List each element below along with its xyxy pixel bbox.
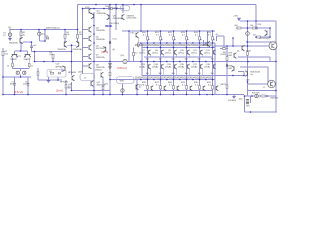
- svg-text:(2SA): (2SA): [178, 65, 184, 68]
- svg-text:R44 10R: R44 10R: [252, 92, 260, 94]
- svg-text:470R: 470R: [85, 7, 90, 9]
- svg-text:R (s): R (s): [113, 39, 117, 41]
- svg-text:(100R): (100R): [220, 54, 226, 56]
- svg-text:1k: 1k: [84, 78, 86, 80]
- svg-text:MJE15030(am): MJE15030(am): [46, 28, 60, 30]
- svg-text:(2SA): (2SA): [139, 65, 145, 68]
- svg-text:2SA1943(2): 2SA1943(2): [187, 76, 199, 79]
- svg-text:(2SC): (2SC): [165, 52, 171, 54]
- svg-text:KSC: KSC: [131, 33, 136, 35]
- svg-text:(2SC): (2SC): [139, 52, 145, 54]
- svg-text:[700mA]: [700mA]: [117, 66, 127, 70]
- svg-text:1k: 1k: [122, 8, 124, 10]
- svg-text:(2N5401A): (2N5401A): [73, 48, 83, 51]
- svg-text:150R: 150R: [105, 6, 110, 8]
- svg-text:220u: 220u: [23, 84, 27, 86]
- svg-text:(1k0): (1k0): [114, 8, 119, 10]
- svg-text:2SA1943: 2SA1943: [270, 96, 278, 99]
- svg-text:[0.5mA]: [0.5mA]: [14, 90, 23, 94]
- svg-text:10k: 10k: [79, 34, 82, 36]
- svg-text:(2SA): (2SA): [165, 65, 171, 68]
- svg-text:MPSA18: MPSA18: [56, 66, 65, 69]
- svg-text:(2SC5200): (2SC5200): [127, 18, 137, 20]
- svg-text:2SA1943(2): 2SA1943(2): [161, 76, 173, 79]
- svg-text:L1: L1: [263, 87, 265, 89]
- svg-text:(2SA): (2SA): [152, 65, 158, 68]
- svg-text:(2SC): (2SC): [178, 52, 184, 54]
- svg-text:2SA1943(2): 2SA1943(2): [174, 76, 186, 79]
- svg-text:2SC5200(2): 2SC5200(2): [135, 45, 148, 47]
- svg-text:2SC5200(2): 2SC5200(2): [174, 45, 187, 47]
- svg-text:2SA970: 2SA970: [10, 58, 17, 61]
- svg-text:(2SC): (2SC): [152, 52, 158, 54]
- svg-text:(e): (e): [237, 50, 240, 52]
- svg-text:2SC5200(2): 2SC5200(2): [148, 45, 161, 47]
- svg-text:(4k): (4k): [235, 25, 239, 27]
- svg-text:2SA1943(2): 2SA1943(2): [135, 76, 147, 79]
- svg-text:[2mA]: [2mA]: [56, 89, 63, 93]
- svg-text:100R: 100R: [78, 71, 83, 73]
- svg-text:(2SC5200): (2SC5200): [109, 23, 119, 25]
- svg-text:(e): (e): [251, 74, 254, 76]
- svg-text:(2SA): (2SA): [191, 65, 197, 68]
- svg-text:2SC5200(2): 2SC5200(2): [161, 45, 174, 47]
- svg-text:2k: 2k: [216, 34, 218, 36]
- svg-text:100u: 100u: [10, 84, 14, 86]
- svg-text:2N5551A: 2N5551A: [97, 12, 107, 15]
- svg-text:+35V: +35V: [233, 15, 239, 17]
- svg-text:2SA970: 2SA970: [24, 58, 31, 61]
- svg-text:2N5551A: 2N5551A: [113, 17, 123, 20]
- svg-text:(1k): (1k): [121, 55, 125, 57]
- svg-text:(1k): (1k): [50, 54, 54, 56]
- svg-text:2SA1943(2): 2SA1943(2): [148, 76, 160, 79]
- svg-text:IN: IN: [9, 27, 12, 30]
- svg-text:100R: 100R: [246, 51, 251, 53]
- svg-text:2SC5200(2): 2SC5200(2): [259, 38, 270, 40]
- svg-text:10k: 10k: [250, 25, 253, 27]
- svg-text:2N5401A: 2N5401A: [9, 41, 18, 44]
- svg-text:MPSA18: MPSA18: [68, 71, 77, 74]
- svg-text:1k: 1k: [7, 65, 9, 67]
- svg-text:4k7: 4k7: [253, 34, 256, 36]
- svg-text:[6mA]: [6mA]: [102, 50, 109, 54]
- svg-text:(1k): (1k): [105, 84, 109, 86]
- svg-text:2N5551: 2N5551: [95, 69, 103, 71]
- svg-text:(2SC): (2SC): [204, 52, 210, 54]
- svg-text:(e): (e): [68, 86, 71, 88]
- svg-text:10k: 10k: [66, 34, 69, 36]
- svg-text:2N5401A: 2N5401A: [96, 29, 105, 32]
- svg-text:KSC1845: KSC1845: [96, 48, 106, 50]
- svg-text:2SC5200(2): 2SC5200(2): [187, 45, 200, 47]
- svg-text:1k: 1k: [31, 65, 33, 67]
- svg-text:100n: 100n: [239, 99, 243, 101]
- svg-text:100R: 100R: [227, 55, 232, 57]
- svg-text:VBE: VBE: [204, 45, 209, 47]
- svg-text:2N5551A: 2N5551A: [96, 56, 105, 59]
- svg-text:(b): (b): [113, 49, 116, 51]
- svg-text:100R: 100R: [227, 68, 232, 70]
- svg-text:(e): (e): [139, 87, 142, 89]
- svg-text:(2SC): (2SC): [191, 52, 197, 54]
- svg-text:(0R22): (0R22): [220, 84, 226, 86]
- svg-text:1k2: 1k2: [49, 71, 52, 73]
- svg-text:(2SA): (2SA): [204, 65, 210, 68]
- svg-text:2N5401A: 2N5401A: [58, 48, 67, 51]
- svg-text:22k: 22k: [5, 54, 8, 56]
- svg-text:2N5401A: 2N5401A: [96, 38, 105, 41]
- svg-text:2SA1943(2): 2SA1943(2): [200, 76, 212, 79]
- svg-text:0V(GND): 0V(GND): [228, 100, 237, 102]
